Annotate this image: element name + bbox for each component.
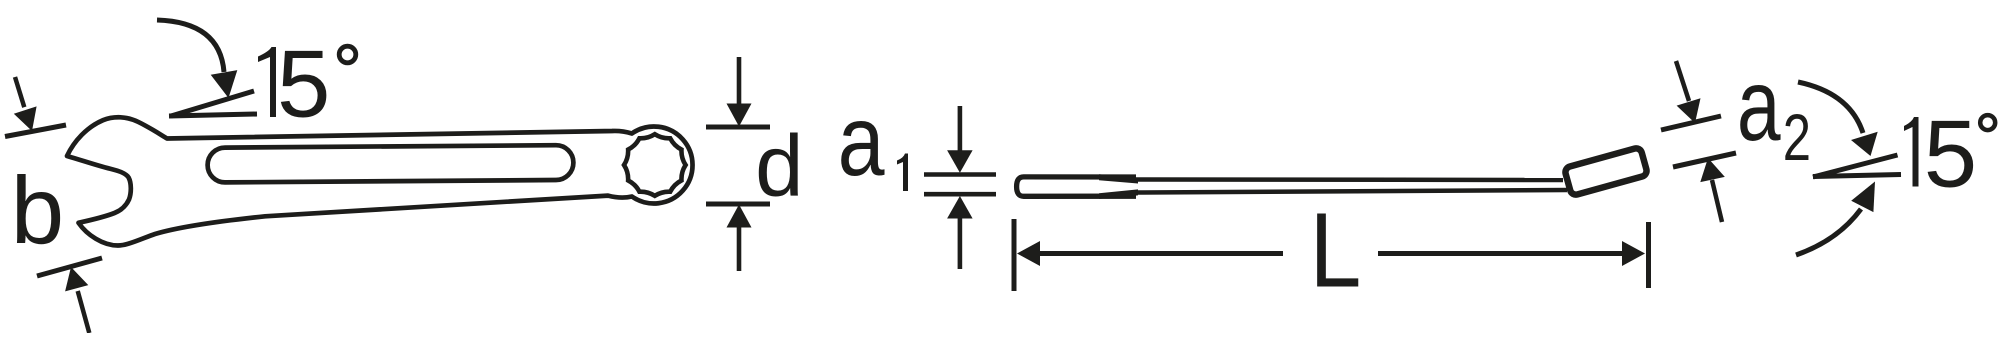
svg-text:a: a (838, 84, 885, 196)
svg-text:5: 5 (1924, 101, 1977, 208)
svg-text:b: b (11, 157, 64, 264)
svg-text:5: 5 (277, 31, 330, 138)
svg-text:2: 2 (1783, 102, 1811, 175)
svg-text:L: L (1310, 192, 1362, 310)
svg-text:d: d (755, 118, 803, 215)
svg-text:a: a (1737, 49, 1781, 162)
